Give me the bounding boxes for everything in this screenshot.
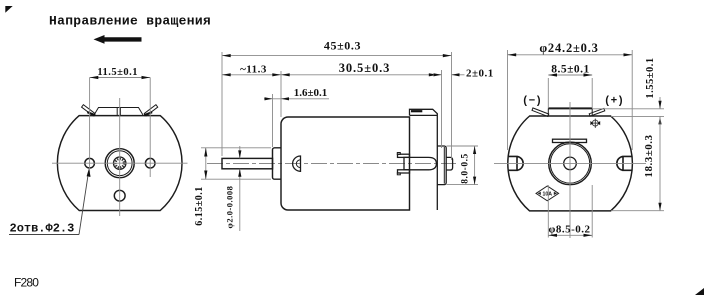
rear left side slot <box>508 156 523 170</box>
rear center hole <box>564 157 577 170</box>
dim dia24.2 extension lines <box>507 50 509 150</box>
front top cap center notch <box>117 108 120 116</box>
motor shaft <box>222 158 273 168</box>
dim dia2.0 line above <box>239 146 241 158</box>
svg-text:~11.3: ~11.3 <box>240 64 267 76</box>
side view horizontal centerline <box>207 163 456 165</box>
front vertical centerline <box>119 98 121 216</box>
dim 8.0 extension lines <box>447 145 479 147</box>
rear bearing boss plate <box>437 146 446 185</box>
svg-text:F280: F280 <box>14 276 39 290</box>
dim 45 extension right <box>451 52 453 160</box>
boss front face extension <box>272 94 274 147</box>
svg-text:Направление вращения: Направление вращения <box>49 14 211 29</box>
corner mark top-left <box>5 6 12 13</box>
front center boss outer circle <box>105 149 134 178</box>
dim 1.55 extension lines <box>593 108 664 110</box>
svg-text:φ2.0-0.008: φ2.0-0.008 <box>225 186 235 229</box>
rear body outline <box>508 116 633 211</box>
leader 2 holes dia 2.3 <box>79 172 89 235</box>
svg-text:8.5±0.1: 8.5±0.1 <box>551 63 590 75</box>
plus terminal marker <box>591 119 600 128</box>
rotation direction arrow <box>94 35 142 44</box>
svg-text:1.55±0.1: 1.55±0.1 <box>645 57 656 98</box>
svg-text:45±0.3: 45±0.3 <box>324 38 361 52</box>
svg-text:φ8.5-0.2: φ8.5-0.2 <box>548 224 590 236</box>
front left terminal tab <box>82 105 95 116</box>
dim 1.55 arrows <box>659 97 661 109</box>
dim 6.15 extension lines <box>201 147 271 149</box>
svg-text:11.5±0.1: 11.5±0.1 <box>97 67 138 78</box>
rear bearing circle outer <box>549 142 592 185</box>
dim 2 extension lines <box>441 70 443 148</box>
front body outline <box>57 116 182 211</box>
dim 8.5 extension lines <box>547 78 549 108</box>
dim 1.6 line and arrows <box>264 98 329 100</box>
dim 11.5 extension line left <box>89 78 91 178</box>
dim dia2.0 line below <box>239 169 241 231</box>
dim 8.0 line <box>474 146 476 185</box>
dim 8.5 line <box>548 74 592 76</box>
svg-text:30.5±0.3: 30.5±0.3 <box>339 61 391 75</box>
dim 6.15 line <box>205 148 207 179</box>
dim dia24.2 line <box>508 54 633 56</box>
rear left terminal <box>532 108 549 117</box>
end cap outline <box>410 109 438 210</box>
svg-text:18.3±0.3: 18.3±0.3 <box>643 134 655 177</box>
brush housing bullet <box>404 157 436 169</box>
motor can body <box>281 117 410 210</box>
terminal prong bottom (side) <box>398 170 410 173</box>
svg-text:2±0.1: 2±0.1 <box>466 67 494 79</box>
front bottom hole <box>114 190 125 201</box>
dim 11.5 arrows <box>90 76 99 79</box>
dim dia8.5 extension lines <box>547 185 549 238</box>
svg-text:6.15±0.1: 6.15±0.1 <box>194 186 205 226</box>
svg-text:φ24.2±0.3: φ24.2±0.3 <box>539 41 598 55</box>
end cap vent slot (filled) <box>411 110 422 112</box>
dim 11.5 extension line right <box>149 78 151 178</box>
dim 11.3/30.5 line <box>222 74 438 76</box>
dim 11.5 line <box>90 77 151 79</box>
front top cap trapezoid bump <box>94 108 143 116</box>
logo diamond <box>536 186 559 201</box>
front left mounting hole <box>85 158 95 168</box>
front horizontal centerline <box>52 162 188 164</box>
front center boss inner circle <box>107 151 132 176</box>
dim 45 line <box>222 55 452 57</box>
terminal prong top (side) <box>398 154 410 157</box>
front right mounting hole <box>145 158 155 168</box>
rear vertical centerline <box>569 102 571 238</box>
corner mark bottom-right <box>695 288 704 295</box>
front right terminal tab <box>144 105 157 116</box>
svg-text:2отв.Ф2.3: 2отв.Ф2.3 <box>10 222 75 236</box>
svg-text:10A: 10A <box>543 191 553 197</box>
rear top bump thick bar <box>548 107 592 109</box>
rear bump side edges <box>548 108 592 116</box>
front right tab base thick <box>144 112 152 115</box>
dim 45 extension left <box>221 52 223 156</box>
front bearing boss <box>273 148 282 179</box>
rear right side slot <box>617 156 632 170</box>
shaft knurl ring <box>115 159 124 168</box>
shaft end circle <box>114 157 126 169</box>
svg-text:(−): (−) <box>522 96 542 108</box>
mounting face extension <box>280 71 282 117</box>
svg-text:1.6±0.1: 1.6±0.1 <box>294 87 328 99</box>
svg-text:8.0-0.5: 8.0-0.5 <box>461 153 471 183</box>
dim 18.3 line <box>659 116 661 210</box>
front left tab base thick <box>87 112 95 115</box>
dim dia8.5 line <box>548 234 592 236</box>
dim 2 arrows <box>433 74 442 76</box>
rear horizontal centerline <box>494 162 646 164</box>
bar above bearing circle <box>553 139 587 142</box>
rear right terminal <box>589 108 605 116</box>
rear bearing circle inner <box>550 144 589 183</box>
front bearing dome inside can <box>293 156 301 171</box>
rear center pip <box>446 157 452 170</box>
svg-text:(+): (+) <box>604 96 624 108</box>
dim 18.3 extension bottom <box>611 210 664 212</box>
